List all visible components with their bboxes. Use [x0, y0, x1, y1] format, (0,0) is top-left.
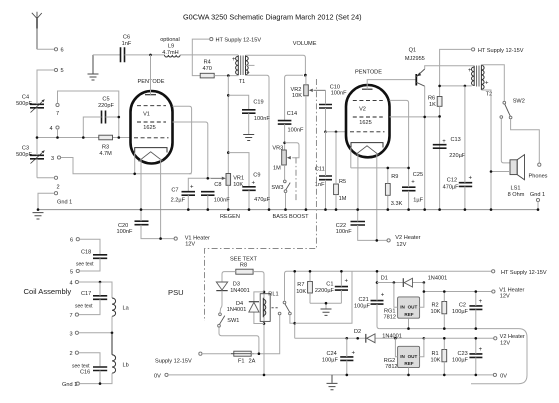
svg-text:100nF: 100nF: [336, 229, 352, 235]
node C9 branch: [227, 151, 230, 154]
coil terminal 7: [75, 313, 78, 316]
regulator RG1 7812: [384, 283, 424, 329]
resistor R7: [296, 270, 312, 303]
node D1 right / RG1 OUT: [423, 281, 426, 284]
wire C14 to VR3 node: [284, 124, 286, 150]
wire V2 cap to Q1 base: [367, 80, 416, 90]
terminal 0V (right): [493, 373, 496, 376]
svg-text:+: +: [352, 350, 356, 356]
svg-text:12V: 12V: [500, 340, 510, 346]
bus junction dots: [37, 208, 540, 211]
transformer T1: [232, 55, 250, 85]
V2 grid dash g1: [350, 131, 385, 133]
node C24 top: [346, 337, 349, 340]
svg-text:220µF: 220µF: [449, 153, 466, 159]
wire terminal3 to cathode line: [61, 158, 192, 174]
capacitor C6: [121, 35, 132, 63]
resistor R1: [431, 337, 447, 376]
wire SW3 to bus: [285, 193, 287, 210]
svg-text:see text: see text: [76, 262, 94, 268]
wire La bottom to node 3: [111, 316, 113, 332]
svg-text:La: La: [123, 306, 130, 312]
V2 top cap: [362, 88, 373, 90]
svg-text:100µF: 100µF: [452, 309, 469, 315]
capacitor C14: [278, 111, 304, 134]
svg-text:R9: R9: [391, 174, 398, 180]
svg-text:3.3K: 3.3K: [391, 201, 403, 207]
svg-text:2.2µF: 2.2µF: [171, 197, 186, 203]
svg-text:7: 7: [56, 111, 59, 117]
svg-text:+: +: [252, 180, 256, 186]
terminal HT Supply 1: [210, 38, 213, 41]
svg-text:REF: REF: [404, 312, 413, 317]
resistor R4: [200, 59, 214, 78]
svg-text:1M: 1M: [339, 196, 347, 202]
svg-text:C2: C2: [459, 302, 466, 308]
svg-text:PENTODE: PENTODE: [138, 79, 165, 85]
node RG2 IN: [394, 337, 397, 340]
wire loop R7/C1 frame: [295, 271, 352, 323]
node RL1 0V: [263, 374, 266, 377]
svg-text:V1: V1: [143, 112, 150, 118]
svg-text:RG2: RG2: [384, 358, 396, 364]
wire terminal4 down to grid line: [57, 129, 59, 137]
svg-text:4.7mH: 4.7mH: [162, 50, 178, 56]
node dots grid line: [36, 136, 39, 139]
svg-text:1N4001: 1N4001: [382, 333, 402, 339]
diode D3: [216, 282, 250, 294]
V1 grid dash g2: [137, 121, 166, 123]
capacitor C3 (variable): [16, 138, 44, 178]
svg-text:+: +: [232, 57, 236, 63]
capacitor C21: [354, 270, 385, 329]
svg-text:10K: 10K: [431, 309, 441, 315]
svg-text:+: +: [468, 68, 472, 74]
svg-text:REF: REF: [404, 361, 413, 366]
pentode V1 envelope: [131, 79, 173, 164]
wire speaker bottom to T2 column: [491, 171, 510, 173]
diode D1: [381, 275, 448, 287]
V1 heater rail: [424, 291, 492, 293]
wire SW1 to fuse node: [219, 327, 259, 354]
svg-text:C5: C5: [102, 97, 109, 103]
wire C11 column: [325, 132, 327, 210]
svg-text:4: 4: [50, 126, 53, 132]
ground symbol (C6): [88, 55, 99, 80]
transistor Q1: [405, 48, 425, 87]
svg-text:V2: V2: [359, 106, 366, 112]
svg-text:MJ2955: MJ2955: [405, 56, 425, 62]
node R4/T1: [227, 74, 230, 77]
wire Q1 emitter to T2 primary top: [425, 66, 475, 69]
svg-text:Phones: Phones: [529, 174, 548, 180]
svg-text:1N4001: 1N4001: [227, 307, 247, 313]
node C19 branch: [227, 94, 230, 97]
svg-text:1625: 1625: [143, 125, 155, 131]
svg-text:C21: C21: [359, 297, 369, 303]
svg-text:+: +: [345, 278, 349, 284]
V2 heater rail: [424, 337, 494, 339]
svg-text:REGEN: REGEN: [220, 214, 240, 220]
svg-text:+: +: [485, 81, 489, 87]
V1 grid dash g1: [134, 137, 169, 139]
svg-text:3: 3: [70, 331, 73, 337]
switch SW2: [500, 99, 525, 119]
resistor R5: [334, 179, 347, 202]
svg-text:RL1: RL1: [268, 291, 278, 297]
capacitor C22: [336, 222, 365, 236]
svg-text:C4: C4: [22, 95, 29, 101]
wire C22 top to bus: [357, 210, 359, 222]
wire C19 to ground: [248, 113, 250, 134]
V2 anode lead: [390, 100, 409, 167]
diode D2: [354, 329, 402, 343]
svg-text:1625: 1625: [359, 120, 371, 126]
fuse F1: [231, 351, 256, 364]
svg-text:10K: 10K: [431, 357, 441, 363]
svg-text:2200µF: 2200µF: [315, 288, 335, 294]
terminal V2 Heater: [387, 239, 390, 242]
V1 screen lead to C8 node: [173, 122, 208, 178]
terminal V1 Heater: [174, 237, 177, 240]
svg-text:C17: C17: [81, 291, 91, 297]
svg-text:VOLUME: VOLUME: [293, 41, 317, 47]
coil terminal 4: [75, 280, 78, 283]
terminal Phones: [538, 163, 541, 166]
svg-text:1N4001: 1N4001: [230, 288, 250, 294]
capacitor C12: [443, 86, 473, 210]
svg-text:OUT: OUT: [408, 354, 418, 359]
svg-text:100µF: 100µF: [354, 304, 371, 310]
svg-text:C24: C24: [327, 351, 337, 357]
resistor R6: [428, 95, 442, 209]
terminal Supply 12-15V: [199, 352, 202, 355]
svg-text:SW1: SW1: [227, 318, 239, 324]
svg-text:BASS BOOST: BASS BOOST: [273, 214, 310, 220]
coil terminal 2: [75, 351, 78, 354]
capacitor C2: [452, 290, 483, 328]
terminal Gnd 1: [54, 192, 57, 195]
ground symbol (C1): [321, 309, 332, 315]
svg-text:SW2: SW2: [513, 99, 525, 105]
wire to C9: [228, 153, 249, 186]
svg-text:5: 5: [61, 68, 64, 74]
svg-text:D3: D3: [233, 282, 240, 288]
svg-text:+: +: [442, 139, 446, 145]
V2 heater pin b: [376, 154, 378, 241]
wire C20 top to bus: [140, 210, 142, 222]
V1 heater filament: [139, 152, 164, 162]
terminal 5: [54, 68, 57, 71]
wire Q1 collector down to bus: [424, 86, 426, 209]
terminal 7: [56, 103, 59, 106]
wire V1 grid line: [37, 137, 131, 139]
antenna: [32, 12, 42, 50]
V1 anode lead: [173, 106, 192, 174]
capacitor C17: [75, 282, 107, 315]
dash-dot shield partition: [205, 79, 317, 321]
svg-text:+: +: [479, 347, 483, 353]
wire relay right throw to switched feed: [290, 315, 295, 323]
svg-text:see text: see text: [75, 304, 93, 310]
wire R5 column: [335, 132, 337, 210]
capacitor C16: [72, 364, 107, 384]
svg-text:F1: F1: [238, 359, 245, 365]
svg-text:Gnd 1: Gnd 1: [530, 192, 545, 198]
ground symbol (0V rail): [327, 375, 338, 390]
node RG1 IN: [393, 281, 396, 284]
svg-text:0V: 0V: [500, 373, 507, 379]
wire R8 right to relay coil column: [253, 272, 264, 375]
capacitor C1: [315, 270, 349, 303]
capacitor C5: [83, 97, 119, 138]
svg-text:IN: IN: [400, 305, 405, 310]
svg-text:+: +: [469, 176, 473, 182]
wire R7/C1 bottom to ground: [310, 303, 341, 308]
svg-text:470µF: 470µF: [254, 197, 271, 203]
capacitor C4 (variable): [16, 70, 44, 138]
svg-text:500pF: 500pF: [16, 101, 32, 107]
pentode V2 envelope: [346, 70, 390, 158]
svg-text:R6: R6: [428, 95, 435, 101]
wire L9 to T1 primary top: [180, 54, 238, 56]
svg-text:+: +: [381, 293, 385, 299]
svg-text:C3: C3: [22, 146, 29, 152]
V1 cathode box: [135, 148, 167, 153]
svg-text:7812: 7812: [385, 364, 397, 370]
svg-text:C6: C6: [123, 35, 130, 41]
svg-text:C16: C16: [80, 370, 90, 376]
wire switched feed to D2 row: [295, 337, 424, 339]
wire VR3 to SW3: [284, 165, 286, 180]
wire relay common up to HT rail: [285, 271, 492, 301]
wire terminal5 to C4 column: [37, 70, 54, 103]
coil terminal 5: [76, 269, 79, 272]
wire SW2 right throw to phones: [511, 119, 540, 163]
wire HT2 down: [440, 49, 472, 96]
svg-text:6: 6: [61, 48, 64, 54]
wire HT supply down to R4: [192, 39, 209, 76]
ground symbol (main bus): [33, 213, 44, 219]
regulator RG2 7812: [384, 338, 424, 376]
svg-text:3: 3: [51, 156, 54, 162]
svg-text:LS1: LS1: [511, 185, 521, 191]
svg-text:C25: C25: [413, 172, 423, 178]
svg-text:D2: D2: [354, 329, 361, 335]
V1 heater pin b: [160, 159, 162, 239]
svg-text:R1: R1: [432, 351, 439, 357]
switch SW3: [271, 180, 290, 193]
svg-text:Gnd 1: Gnd 1: [62, 382, 77, 388]
svg-text:100nF: 100nF: [254, 116, 270, 122]
wire supply to fuse: [202, 353, 234, 355]
wire D1 line: [377, 282, 424, 284]
terminal 4: [56, 126, 59, 129]
svg-text:100nF: 100nF: [214, 197, 230, 203]
V2 heater filament: [355, 146, 378, 155]
svg-text:V2 Heater: V2 Heater: [500, 334, 525, 340]
V1 grid dash g3: [137, 105, 166, 107]
V1 top cap: [145, 94, 156, 96]
V2 cathode pin: [350, 148, 352, 168]
wire C20 bottom to heater line: [141, 225, 174, 239]
wire C7/C8/VR1 top line: [188, 178, 211, 191]
capacitor C20: [117, 221, 149, 235]
svg-text:SW3: SW3: [271, 185, 283, 191]
V1 heater pin a: [140, 159, 142, 210]
svg-text:100µF: 100µF: [322, 358, 339, 364]
svg-text:R4: R4: [204, 59, 211, 65]
svg-text:+: +: [190, 185, 194, 191]
svg-text:1µF: 1µF: [413, 197, 423, 203]
terminal 0V (left): [165, 373, 168, 376]
svg-text:12V: 12V: [185, 241, 195, 247]
svg-text:D1: D1: [381, 275, 388, 281]
wire R4 to T1 primary bottom node: [214, 75, 238, 77]
wire to C19: [228, 95, 248, 109]
svg-text:5: 5: [70, 270, 73, 276]
capacitor C13: [433, 137, 466, 159]
terminal V1 Heater (PSU): [492, 290, 495, 293]
svg-text:2: 2: [70, 351, 73, 357]
relay RL1 coil: [260, 291, 278, 321]
node D1 left: [376, 281, 379, 284]
node RG2 OUT: [423, 337, 426, 340]
svg-text:HT Supply 12-15V: HT Supply 12-15V: [501, 270, 547, 276]
svg-text:PSU: PSU: [168, 288, 184, 297]
svg-text:T1: T1: [239, 79, 246, 85]
V2 heater pin a: [357, 154, 359, 210]
terminal V2 Heater (PSU): [494, 337, 497, 340]
svg-text:C13: C13: [451, 137, 461, 143]
svg-text:VR1: VR1: [233, 176, 244, 182]
svg-text:100nF: 100nF: [117, 229, 133, 235]
svg-text:4: 4: [70, 281, 73, 287]
svg-text:1N4001: 1N4001: [428, 275, 448, 281]
wire C7 to bus: [187, 195, 189, 209]
wire C14 branch from VR2 top: [285, 75, 303, 120]
wire C8 to bus: [207, 195, 209, 209]
terminal Gnd 1 (right): [536, 198, 539, 201]
relay contact link dashes: [272, 307, 278, 309]
inductor L9 (optional): [160, 37, 180, 57]
svg-text:1K: 1K: [429, 102, 436, 108]
svg-text:7812: 7812: [384, 314, 396, 320]
svg-text:R7: R7: [297, 282, 304, 288]
ground bus: [38, 209, 538, 211]
svg-text:V2 Heater: V2 Heater: [395, 235, 420, 241]
svg-text:10K: 10K: [292, 93, 302, 99]
svg-text:R5: R5: [339, 179, 346, 185]
inductor Lb: [112, 333, 129, 373]
svg-text:C18: C18: [81, 250, 91, 256]
terminal HT Supply (PSU): [492, 270, 495, 273]
capacitor C24: [322, 338, 356, 376]
V1 heater return rail and V2 section box: [379, 329, 527, 384]
svg-text:C19: C19: [253, 100, 263, 106]
node V1 grid cap: [149, 54, 152, 57]
svg-text:Coil Assembly: Coil Assembly: [24, 287, 72, 296]
wire R8 left to D3: [222, 272, 236, 282]
svg-text:+: +: [479, 299, 483, 305]
svg-text:Supply 12-15V: Supply 12-15V: [155, 359, 192, 365]
V1 cathode pin: [134, 153, 136, 174]
svg-text:optional: optional: [160, 37, 180, 43]
svg-text:10K: 10K: [296, 289, 306, 295]
relay contacts: [278, 301, 291, 315]
svg-text:4.7M: 4.7M: [99, 151, 112, 157]
wire T1 secondary mid tap: [246, 64, 255, 66]
resistor R2: [431, 290, 447, 328]
wire C6 to V1 grid-cap node and L9: [125, 54, 165, 56]
V2 grid dash g2: [353, 116, 383, 118]
node RL1 bottom: [263, 322, 266, 325]
svg-text:0V: 0V: [154, 373, 161, 379]
svg-text:1nF: 1nF: [315, 182, 325, 188]
transformer T2: [468, 65, 492, 98]
potentiometer VR2: [291, 75, 326, 209]
wire T2 secondary bottom to speaker/bus: [481, 90, 491, 210]
svg-text:100nF: 100nF: [288, 128, 304, 134]
svg-text:C7: C7: [171, 188, 178, 194]
coil terminal Gnd 1: [76, 382, 79, 385]
wire C5 right node down: [118, 117, 120, 138]
inductor La: [112, 298, 130, 316]
svg-text:6: 6: [70, 238, 73, 244]
svg-text:HT Supply 12-15V: HT Supply 12-15V: [478, 48, 524, 54]
svg-text:G0CWA 3250 Schematic Diagram M: G0CWA 3250 Schematic Diagram March 2012 …: [183, 13, 362, 22]
wire T2 primary bottom line: [440, 85, 472, 87]
wire C3 bottom to terminal 2: [37, 177, 54, 179]
coil terminal 3: [75, 331, 78, 334]
V2 screen lead: [390, 116, 440, 118]
svg-text:1M: 1M: [273, 165, 281, 171]
svg-text:IN: IN: [400, 354, 405, 359]
capacitor C11: [315, 167, 332, 188]
wire V2 grid line: [326, 131, 347, 133]
svg-text:C14: C14: [287, 111, 297, 117]
wire wiper to C10 and down to V2 grid line: [325, 90, 327, 132]
wire antenna to terminal 6: [37, 48, 54, 50]
svg-text:470µF: 470µF: [443, 185, 460, 191]
svg-text:12V: 12V: [396, 242, 406, 248]
resistor R9: [385, 167, 402, 210]
svg-text:500pF: 500pF: [16, 152, 32, 158]
wire Lb bottom to Gnd1: [79, 373, 112, 383]
svg-text:8 Ohm: 8 Ohm: [508, 192, 525, 198]
wire T2 secondary top to SW2: [481, 65, 504, 101]
svg-text:HT Supply 12-15V: HT Supply 12-15V: [216, 38, 262, 44]
svg-text:C12: C12: [447, 178, 457, 184]
svg-text:Q1: Q1: [409, 48, 416, 54]
wire fuse node to relay left contact: [251, 315, 280, 354]
svg-text:220pF: 220pF: [98, 103, 114, 109]
svg-text:100nF: 100nF: [331, 91, 347, 97]
potentiometer VR1: [211, 174, 244, 210]
svg-text:R2: R2: [432, 302, 439, 308]
svg-text:VR3: VR3: [272, 146, 283, 152]
capacitor C18: [76, 250, 107, 268]
terminal 3: [57, 156, 60, 159]
wire T1 secondary top to VR2: [246, 55, 306, 75]
svg-text:+: +: [411, 179, 415, 185]
svg-text:see text: see text: [72, 364, 90, 370]
svg-text:L9: L9: [168, 44, 174, 50]
ground symbol (C19): [243, 135, 254, 141]
terminal HT Supply 2: [472, 48, 475, 51]
wire C9 to bus: [248, 190, 250, 209]
0V rail: [168, 374, 493, 376]
